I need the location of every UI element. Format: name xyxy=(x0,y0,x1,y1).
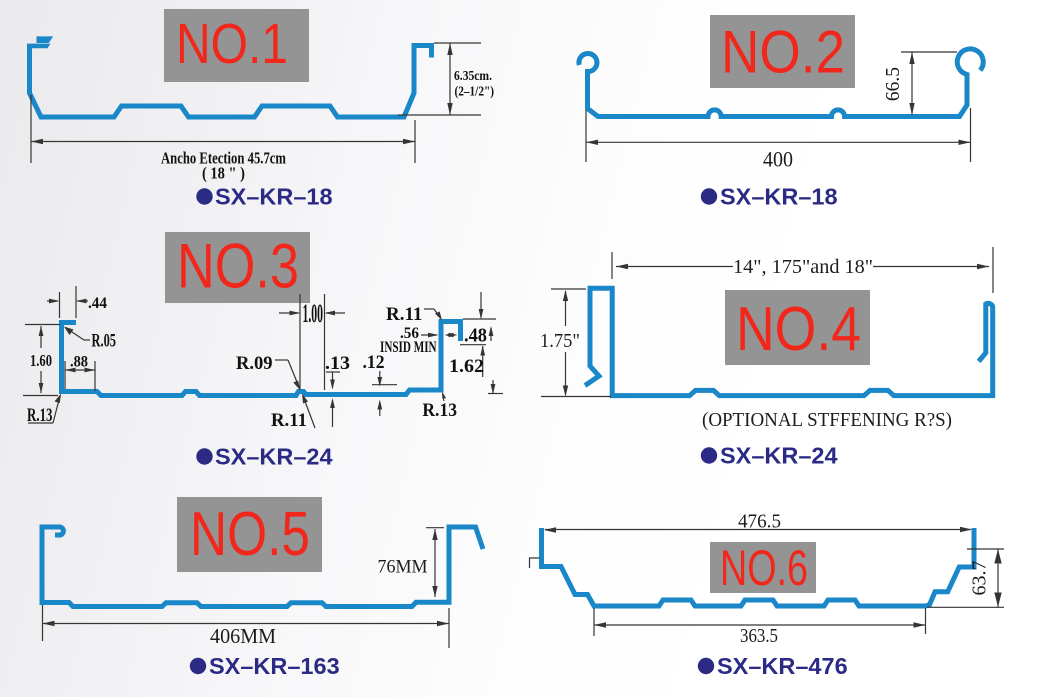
svg-text:1.60: 1.60 xyxy=(30,351,52,370)
svg-text:R.13: R.13 xyxy=(422,400,457,421)
NO.4 top width dimension line with arrows xyxy=(616,264,989,269)
NO.5 height dim 76MM xyxy=(426,528,444,597)
red label NO.2 xyxy=(721,19,845,86)
gray label box NO.5 xyxy=(177,497,322,572)
NO.1 dimension extension line right xyxy=(414,120,416,163)
NO.3 dim .48 text xyxy=(464,325,487,347)
svg-text:14", 175"and 18": 14", 175"and 18" xyxy=(733,256,873,278)
svg-text:R.11: R.11 xyxy=(386,304,422,325)
NO.6 height text rotated xyxy=(969,561,991,596)
NO.2 height value text rotated xyxy=(883,67,904,101)
NO.6 height dimension line with arrows xyxy=(994,549,1001,607)
NO.4 height text 1.75 xyxy=(540,330,580,352)
NO.3 dim .88 extension lines xyxy=(65,361,95,391)
svg-text:.48: .48 xyxy=(464,325,487,347)
gray label box NO.4 xyxy=(725,290,870,365)
svg-text:406MM: 406MM xyxy=(210,624,276,648)
product label SX-KR-163 xyxy=(190,653,340,679)
product label SX-KR-24 left xyxy=(196,444,332,470)
NO.5 width value text xyxy=(210,624,276,648)
svg-text:SX–KR–18: SX–KR–18 xyxy=(215,184,333,210)
NO.3 text R.13 left xyxy=(27,405,53,426)
svg-text:SX–KR–24: SX–KR–24 xyxy=(720,443,838,469)
red label NO.1 xyxy=(176,12,288,76)
svg-text:400: 400 xyxy=(763,147,793,172)
svg-text:1.62: 1.62 xyxy=(449,356,484,377)
svg-text:1.75": 1.75" xyxy=(540,330,580,352)
svg-text:66.5: 66.5 xyxy=(883,67,904,101)
NO.6 hem mark black xyxy=(530,558,540,568)
NO.3 text R.05 xyxy=(92,331,117,352)
NO.1 width inches text xyxy=(202,164,245,183)
NO.3 text R.11 top xyxy=(386,304,422,325)
NO.6 height extension line top xyxy=(967,548,1004,550)
svg-text:63.7: 63.7 xyxy=(969,561,991,596)
svg-text:.13: .13 xyxy=(325,353,350,374)
svg-text:SX–KR–18: SX–KR–18 xyxy=(720,184,838,210)
gray label box NO.6 xyxy=(710,542,816,593)
NO.3 leader R.13 left xyxy=(28,394,61,424)
profile NO.2 panel outline xyxy=(579,49,983,117)
svg-text:SX–KR–476: SX–KR–476 xyxy=(717,653,848,679)
NO.3 dim 1.00 arrows xyxy=(279,311,345,316)
NO.3 dim .13 marks xyxy=(326,372,340,427)
svg-text:NO.3: NO.3 xyxy=(177,232,299,302)
NO.3 dim 1.60 arrows xyxy=(39,326,44,393)
svg-text:R.13: R.13 xyxy=(27,405,53,426)
NO.3 dim .88 text xyxy=(70,354,88,371)
svg-text:R.05: R.05 xyxy=(92,331,117,352)
product label SX-KR-476 xyxy=(698,653,848,679)
NO.3 dim 1.60 text xyxy=(30,351,52,370)
svg-text:6.35cm.: 6.35cm. xyxy=(454,68,492,83)
NO.1 height extension line top xyxy=(434,42,481,44)
NO.6 top width dimension line with arrows xyxy=(544,527,972,533)
NO.5 width extension line left xyxy=(42,605,44,641)
NO.5 width dimension line with arrows xyxy=(43,621,450,626)
NO.3 leader R.11 top xyxy=(424,309,442,321)
NO.4 height dim 1.75 xyxy=(541,289,611,397)
profile NO.1 hook head upper fold xyxy=(37,36,54,43)
NO.3 text R.09 xyxy=(236,353,273,374)
NO.2 width extension line left xyxy=(585,110,587,162)
NO.5 height text 76MM xyxy=(378,558,428,578)
NO.3 dim .13 text xyxy=(325,353,350,374)
svg-text:NO.4: NO.4 xyxy=(736,295,861,364)
NO.3 leader R.05 xyxy=(64,327,90,341)
svg-text:76MM: 76MM xyxy=(378,558,428,578)
NO.3 leader R.09 xyxy=(275,360,300,390)
gray label box NO.1 xyxy=(164,9,309,82)
NO.3 text R.11 lower xyxy=(271,410,307,431)
svg-text:.88: .88 xyxy=(70,354,88,371)
NO.3 dim .56 arrows xyxy=(421,333,458,338)
svg-text:NO.6: NO.6 xyxy=(720,540,808,596)
svg-text:(OPTIONAL STFFENING R?S): (OPTIONAL STFFENING R?S) xyxy=(702,410,952,431)
svg-text:1.00: 1.00 xyxy=(303,299,324,328)
product label SX-KR-18 left xyxy=(196,184,332,210)
red label NO.5 xyxy=(190,500,310,569)
NO.3 dim .88 arrows xyxy=(65,368,95,373)
NO.6 top width text xyxy=(738,511,781,533)
NO.6 bottom width text xyxy=(740,625,778,647)
NO.3 dim .44 text xyxy=(88,295,107,312)
svg-text:SX–KR–163: SX–KR–163 xyxy=(209,653,340,679)
red label NO.4 xyxy=(736,295,861,364)
NO.6 height extension line bottom xyxy=(927,606,1004,608)
profile NO.4 panel outline xyxy=(585,288,993,395)
NO.2 width value text xyxy=(763,147,793,172)
svg-text:SX–KR–24: SX–KR–24 xyxy=(215,444,333,470)
red label NO.6 xyxy=(720,540,808,596)
NO.3 dim .12 marks xyxy=(372,371,397,416)
NO.3 leader R.13 right xyxy=(442,392,446,402)
svg-text:.44: .44 xyxy=(88,295,107,312)
profile NO.1 hook head flange xyxy=(27,44,51,49)
gray label box NO.2 xyxy=(710,15,855,88)
NO.6 bottom width dimension line with arrows xyxy=(594,622,926,627)
NO.1 width value text xyxy=(161,149,286,168)
svg-text:( 18 " ): ( 18 " ) xyxy=(202,164,245,183)
profile NO.6 tray outline xyxy=(542,528,975,606)
NO.4 optional stiffening text xyxy=(702,410,952,431)
NO.1 height dimension line with arrows xyxy=(447,43,452,115)
profile NO.3 panel outline xyxy=(62,322,461,396)
NO.3 dim 1.00 text xyxy=(303,299,324,328)
NO.3 text INSID MIN xyxy=(380,339,437,356)
profile NO.5 panel outline xyxy=(42,527,483,607)
NO.3 text R.13 right xyxy=(422,400,457,421)
NO.1 height extension line bottom xyxy=(398,114,481,116)
NO.3 dim 1.00 extension lines xyxy=(300,294,325,390)
NO.3 dim 1.62 marks xyxy=(480,346,503,395)
NO.3 dim 1.60 extension ticks xyxy=(23,325,60,396)
NO.4 top width text xyxy=(733,256,873,278)
NO.3 dim .48 marks xyxy=(460,292,496,345)
NO.2 height extension line top xyxy=(901,51,957,53)
NO.1 width dimension line with arrows xyxy=(31,139,415,144)
NO.2 width dimension line with arrows xyxy=(586,140,971,145)
svg-text:NO.1: NO.1 xyxy=(176,12,288,76)
NO.3 text .56 xyxy=(400,325,419,342)
product label SX-KR-18 right xyxy=(701,184,838,210)
NO.4 top width extension line left xyxy=(611,252,613,279)
NO.3 dim .44 extension lines xyxy=(60,286,77,318)
NO.3 dim 1.62 text xyxy=(449,356,484,377)
gray label box NO.3 xyxy=(165,232,310,303)
NO.5 width extension line right xyxy=(448,608,450,648)
NO.2 height dimension line with arrows xyxy=(909,52,914,115)
NO.1 height value text xyxy=(454,68,494,99)
NO.3 dim .44 arrows xyxy=(47,299,88,304)
svg-text:NO.5: NO.5 xyxy=(190,500,310,569)
svg-text:(2–1/2"): (2–1/2") xyxy=(455,84,495,99)
NO.6 bottom width extension line right xyxy=(925,608,927,634)
NO.4 top width extension line right xyxy=(992,247,994,293)
NO.1 dimension extension line left xyxy=(30,95,32,163)
NO.6 bottom width extension line left xyxy=(593,608,595,636)
NO.2 width extension line right xyxy=(970,108,972,162)
NO.3 leader R.11 lower xyxy=(302,394,315,429)
svg-text:R.09: R.09 xyxy=(236,353,273,374)
svg-text:476.5: 476.5 xyxy=(738,511,781,533)
NO.3 dim .12 text xyxy=(363,352,385,373)
red label NO.3 xyxy=(177,232,299,302)
profile NO.1 panel outline xyxy=(30,44,432,117)
svg-text:NO.2: NO.2 xyxy=(721,19,845,86)
svg-text:INSID MIN: INSID MIN xyxy=(380,339,437,356)
svg-text:R.11: R.11 xyxy=(271,410,307,431)
product label SX-KR-24 right xyxy=(701,443,838,469)
svg-text:363.5: 363.5 xyxy=(740,625,778,647)
